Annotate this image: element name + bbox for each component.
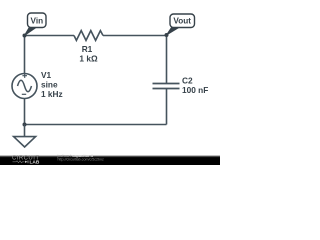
svg-text:Vin: Vin	[31, 16, 44, 25]
footer credit text	[57, 153, 105, 162]
wire right vertical (node Vout to C2 top)	[166, 36, 168, 84]
wire left vertical (node Vin to V1 top)	[24, 36, 26, 74]
resistor R1	[74, 31, 103, 64]
wire top-left horizontal (node Vin to R1)	[25, 35, 75, 37]
wire top-right horizontal (R1 to node Vout)	[103, 35, 167, 37]
ground	[14, 125, 36, 148]
node junction at ground	[23, 123, 27, 127]
svg-text:sine: sine	[41, 80, 58, 90]
svg-text:100 nF: 100 nF	[182, 85, 208, 95]
svg-text:http://circuitlab.com/c/5c2bnz: http://circuitlab.com/c/5c2bnz	[58, 158, 105, 162]
svg-text:1 kHz: 1 kHz	[41, 89, 63, 99]
svg-text:R1: R1	[82, 44, 93, 54]
svg-text:V1: V1	[41, 70, 52, 80]
svg-text:Vout: Vout	[173, 17, 191, 26]
CircuitLab logo	[12, 156, 40, 166]
wire right vertical (C2 bottom to bottom wire)	[166, 89, 168, 125]
node Vout flag	[165, 14, 195, 37]
svg-text:LAB: LAB	[30, 160, 40, 165]
node Vin flag	[23, 13, 47, 38]
svg-text:C2: C2	[182, 76, 193, 86]
svg-text:1 kΩ: 1 kΩ	[79, 54, 98, 64]
capacitor C2	[153, 76, 209, 96]
voltage source V1	[12, 70, 63, 99]
footer bar	[0, 155, 220, 165]
wire left vertical (V1 bottom to ground node)	[24, 99, 26, 125]
wire bottom horizontal	[25, 124, 167, 126]
